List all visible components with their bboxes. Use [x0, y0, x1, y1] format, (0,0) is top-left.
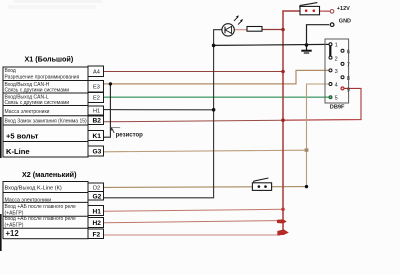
svg-text:Масса электроники: Масса электроники — [5, 109, 50, 115]
ground net top horizontal — [214, 44, 329, 45]
resistor R1 — [247, 27, 283, 32]
svg-text:+12: +12 — [6, 229, 20, 238]
svg-text:Вход Замок зажигания (Клемма 1: Вход Замок зажигания (Клемма 15) — [5, 118, 88, 124]
pin 2 — [329, 56, 332, 59]
svg-text:резистор: резистор — [116, 133, 144, 139]
svg-text:+5 вольт: +5 вольт — [6, 132, 39, 141]
svg-text:H2: H2 — [93, 220, 102, 227]
wire K-line riser to DB9F pin4 — [307, 84, 329, 187]
node K-line G3 joins riser — [305, 148, 309, 151]
svg-text:Разрешение программирования: Разрешение программирования — [5, 74, 80, 80]
cropped left-edge bar upper — [0, 117, 2, 158]
cropped left-edge bar lower — [0, 214, 2, 251]
wire E2 CAN-L to DB9F pin5 — [104, 96, 329, 98]
LED D1 — [222, 15, 247, 36]
wire X2 F2 +12 — [104, 234, 281, 236]
svg-text:Вход/Выход K-Line (К): Вход/Выход K-Line (К) — [5, 185, 62, 191]
svg-text:D2: D2 — [93, 186, 100, 192]
svg-text:GND: GND — [339, 19, 351, 25]
svg-text:(+АБГР): (+АБГР) — [5, 223, 24, 229]
svg-text:Вход +АБ после главного реле: Вход +АБ после главного реле — [5, 204, 77, 210]
label резистор — [111, 127, 144, 139]
svg-text:A4: A4 — [93, 69, 100, 75]
pin 4 — [329, 83, 332, 86]
pin 7 — [341, 62, 344, 65]
svg-text:5: 5 — [335, 96, 338, 102]
node led ground corner — [212, 44, 216, 48]
connector DB9F — [325, 39, 350, 111]
wire H1 X1 ground — [104, 109, 214, 111]
pin 6 — [341, 49, 344, 52]
svg-text:E3: E3 — [93, 84, 100, 90]
wire X2 H1 +AB — [104, 209, 284, 211]
wire E3 CAN-H to DB9F pin3 — [104, 70, 329, 84]
svg-text:G2: G2 — [93, 194, 102, 201]
node rail-resistor — [281, 28, 285, 32]
node rail-B2 — [281, 118, 285, 122]
svg-text:B2: B2 — [93, 118, 102, 125]
svg-text:F2: F2 — [93, 231, 101, 238]
svg-text:7: 7 — [347, 63, 350, 69]
svg-text:4: 4 — [335, 83, 338, 89]
svg-text:1: 1 — [335, 43, 338, 49]
svg-text:DB9F: DB9F — [330, 105, 345, 111]
wire B2 rail to DB9F pin9 — [283, 88, 361, 120]
wire K1 +5V stub to resistor — [104, 84, 111, 137]
svg-text:6: 6 — [347, 49, 350, 55]
svg-text:9: 9 — [347, 88, 350, 94]
ground symbol — [301, 45, 311, 53]
GND terminal — [330, 23, 334, 27]
svg-text:8: 8 — [347, 76, 350, 82]
node rail-A4 — [281, 70, 285, 74]
svg-text:Масса электроники: Масса электроники — [5, 198, 52, 204]
node H1 ground junction — [212, 108, 216, 112]
svg-text:K-Line: K-Line — [6, 147, 30, 156]
wire X2 H2 +AB — [104, 221, 279, 223]
node H2 arrow blob — [277, 219, 287, 223]
svg-text:2: 2 — [335, 56, 338, 62]
wire K-Line G3 — [104, 150, 307, 152]
table X2 — [3, 182, 88, 239]
GND terminal wire — [307, 25, 330, 45]
svg-text:Связь с другими системами: Связь с другими системами — [5, 100, 70, 106]
pin 3 — [329, 69, 332, 72]
node ground symbol junction — [305, 43, 309, 47]
svg-text:Связь с другими системами: Связь с другими системами — [5, 88, 70, 94]
svg-text:+12V: +12V — [337, 6, 350, 12]
table X1 — [3, 67, 88, 157]
+12V terminal — [330, 10, 334, 14]
svg-text:E2: E2 — [93, 96, 100, 102]
pin 9 — [341, 87, 344, 90]
node E3-resistor junction — [109, 82, 112, 85]
pin 1 — [329, 43, 332, 46]
svg-text:Вход: Вход — [5, 68, 16, 74]
pin 5 — [329, 96, 332, 99]
jumper pins 1-2 — [329, 46, 331, 56]
svg-text:H1: H1 — [93, 109, 100, 115]
wire G2 X2 ground — [104, 30, 222, 198]
svg-text:G3: G3 — [93, 148, 102, 155]
svg-text:X2 (маленький): X2 (маленький) — [22, 170, 77, 179]
pin 8 — [341, 76, 344, 79]
wire D2 K-Line X2 through switch — [104, 186, 307, 189]
svg-text:H1: H1 — [93, 208, 102, 215]
switch S2 K-line — [252, 178, 271, 190]
wire A4 to +12V rail — [104, 71, 284, 73]
svg-text:K1: K1 — [93, 133, 102, 140]
switch S1 +12V — [300, 3, 331, 15]
faint cropped text remnants top-left — [14, 0, 102, 3]
node D2 joins riser — [305, 185, 308, 188]
X1 pin boxes — [88, 66, 104, 156]
svg-text:3: 3 — [335, 69, 338, 75]
wire +12V rail vertical — [283, 11, 300, 235]
node F2 arrow blob — [277, 229, 289, 235]
node rail-H1X2 — [281, 208, 285, 212]
wire B2 ignition — [104, 120, 284, 122]
svg-text:Вход +АБ после главного реле: Вход +АБ после главного реле — [5, 216, 77, 222]
svg-text:X1 (Большой): X1 (Большой) — [25, 55, 74, 64]
X2 pin boxes — [88, 183, 104, 239]
